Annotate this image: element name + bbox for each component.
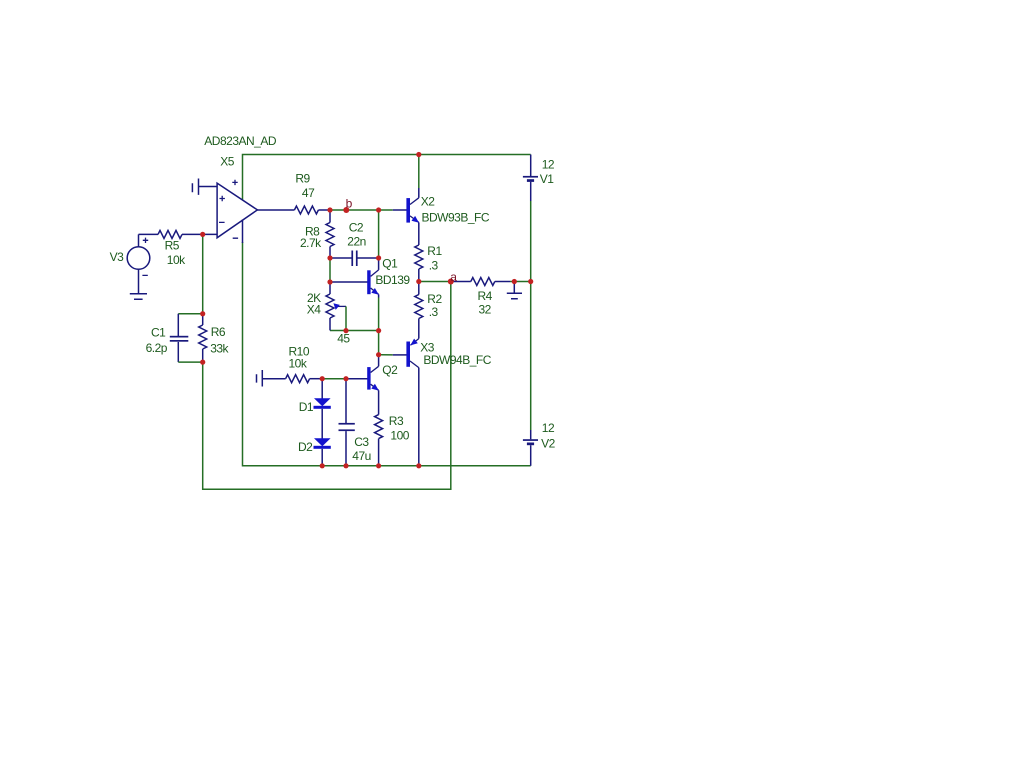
svg-text:R4: R4 — [478, 289, 493, 303]
capacitor C3 — [345, 379, 347, 423]
svg-text:D1: D1 — [299, 400, 314, 414]
wire: inverting input node (R5/R6 junction) — [202, 234, 204, 313]
svg-text:BD139: BD139 — [375, 273, 410, 287]
op-amp V- pin stub — [242, 220, 244, 244]
junction (418.8,465.8) — [416, 463, 421, 468]
svg-text:12: 12 — [542, 421, 555, 435]
svg-text:V2: V2 — [541, 437, 556, 451]
transistor Q2 — [346, 378, 368, 380]
junction (378.6,258) — [376, 255, 381, 260]
resistor R5 — [139, 233, 159, 235]
resistor R2 — [418, 282, 420, 295]
junction (418.8,154.5) — [416, 152, 421, 157]
resistor R9 — [294, 206, 318, 214]
wire: Q1 emitter to Q2 collector node — [378, 331, 380, 355]
wire: Q1 emitter to output column — [378, 298, 380, 331]
battery V2 12 — [523, 439, 538, 441]
capacitor C1 — [178, 313, 202, 315]
junction (202.7,313.75) — [200, 311, 205, 316]
wire: Q2 collector node to X3 base — [379, 354, 393, 356]
svg-text:6.2p: 6.2p — [146, 341, 168, 355]
node b — [343, 207, 349, 213]
wire: V+ top rail — [243, 155, 531, 201]
wire: V2 minus lead — [530, 445, 532, 466]
junction (514.3,281.5) — [512, 279, 517, 284]
junction (346,465.8) — [343, 463, 348, 468]
resistor R4 — [452, 281, 471, 283]
svg-text:R5: R5 — [165, 239, 180, 253]
svg-text:R2: R2 — [427, 292, 442, 306]
svg-text:BDW94B_FC: BDW94B_FC — [423, 353, 491, 367]
svg-text:R3: R3 — [389, 414, 404, 428]
junction (378.6,330.6) — [376, 328, 381, 333]
svg-text:33k: 33k — [210, 341, 229, 355]
svg-text:a: a — [450, 270, 457, 284]
resistor R1 — [415, 245, 423, 269]
wire: D1 node to C3 node (Q2 base net) — [322, 378, 346, 380]
junction (202.7,362.1) — [200, 360, 205, 365]
svg-text:Q1: Q1 — [382, 257, 398, 271]
junction (330,258) — [327, 255, 332, 260]
junction (346,330.6) — [343, 328, 348, 333]
svg-text:22n: 22n — [347, 235, 366, 249]
svg-text:R6: R6 — [211, 325, 226, 339]
ground (V3) — [130, 294, 147, 299]
svg-text:C2: C2 — [349, 221, 364, 235]
wire: V- bottom rail — [243, 242, 531, 466]
capacitor C2 — [330, 257, 352, 259]
wire: node b horizontal (R9 out to X2 base) — [330, 209, 393, 211]
svg-text:V3: V3 — [110, 250, 125, 264]
svg-text:AD823AN_AD: AD823AN_AD — [204, 134, 277, 148]
junction (530.7,281.5) — [528, 279, 533, 284]
input port I (R10 input) — [257, 370, 263, 387]
potentiometer X4 2K — [329, 282, 331, 294]
transistor X2 BDW93B_FC — [393, 209, 407, 211]
node a — [448, 279, 454, 285]
junction (330,210) — [327, 207, 332, 212]
battery V1 12 — [523, 176, 538, 178]
resistor R6 — [202, 314, 204, 325]
svg-text:47: 47 — [302, 186, 315, 200]
wire: node a row (R1/R2 to R4 to battery mid) — [419, 281, 452, 283]
svg-text:b: b — [346, 196, 353, 210]
junction (418.8,281.5) — [416, 279, 421, 284]
ground (R4 / battery midpoint) — [513, 282, 515, 294]
wire: R8 bottom to X4 top — [329, 258, 331, 282]
resistor R3 — [375, 415, 383, 439]
svg-text:45: 45 — [337, 332, 350, 346]
transistor X3 BDW94B_FC (PNP) — [393, 354, 407, 356]
wire: feedback lower rail — [203, 282, 451, 490]
junction (202.7,234.4) — [200, 232, 205, 237]
op-amp X5 AD823AN_AD — [217, 183, 257, 238]
wire: V1 plus lead — [530, 155, 532, 177]
svg-text:32: 32 — [479, 303, 492, 317]
svg-text:R9: R9 — [295, 172, 310, 186]
op-amp output wire — [257, 209, 294, 211]
wire: V1 minus to V2 plus (battery midpoint column) — [530, 182, 532, 201]
svg-text:.3: .3 — [429, 305, 439, 319]
junction (378.6,465.8) — [376, 463, 381, 468]
svg-text:100: 100 — [390, 428, 409, 442]
svg-text:X2: X2 — [421, 195, 436, 209]
junction (322.2,378.7) — [320, 376, 325, 381]
svg-text:Q2: Q2 — [382, 363, 398, 377]
junction (346,378.7) — [343, 376, 348, 381]
wire: X4 bottom row to Q1 emitter column — [330, 330, 379, 332]
svg-text:.3: .3 — [429, 259, 439, 273]
wire: X2 collector to V+ rail — [418, 155, 420, 189]
voltage source V3 — [127, 247, 150, 270]
svg-text:10k: 10k — [289, 357, 308, 371]
resistor R10 — [286, 375, 310, 383]
resistor R8 — [329, 210, 331, 223]
svg-text:47u: 47u — [352, 449, 371, 463]
svg-text:X4: X4 — [307, 302, 322, 316]
diode D2 — [314, 438, 331, 446]
svg-text:10k: 10k — [167, 253, 186, 267]
diode D1 — [321, 379, 323, 399]
junction (378.6,210) — [376, 207, 381, 212]
svg-text:2.7k: 2.7k — [300, 236, 322, 250]
junction (322.2,465.8) — [320, 463, 325, 468]
junction (378.6,354.7) — [376, 352, 381, 357]
svg-text:C1: C1 — [151, 326, 166, 340]
wire: node b down to Q1 collector / C2 — [378, 210, 380, 258]
input port I (op-amp + input) — [192, 179, 198, 195]
svg-text:C3: C3 — [354, 435, 369, 449]
svg-text:R1: R1 — [427, 244, 442, 258]
junction (330,282) — [327, 279, 332, 284]
transistor Q1 BD139 — [330, 281, 368, 283]
svg-text:12: 12 — [542, 157, 555, 171]
svg-text:V1: V1 — [540, 172, 555, 186]
svg-text:X5: X5 — [220, 155, 235, 169]
svg-text:D2: D2 — [298, 440, 313, 454]
svg-text:BDW93B_FC: BDW93B_FC — [422, 210, 490, 224]
